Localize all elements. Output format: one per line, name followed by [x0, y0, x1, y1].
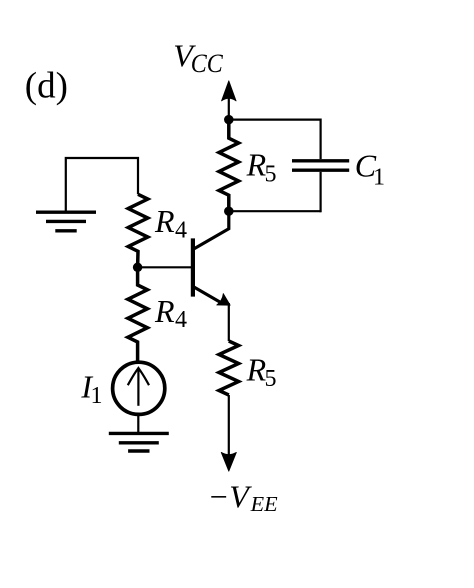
wire: top node to capacitor branch	[229, 118, 321, 120]
resistor R4 (upper) value label	[154, 203, 187, 244]
resistor R5 (top) value label	[246, 146, 277, 187]
resistor R4 (lower) value label	[154, 293, 187, 333]
svg-text:1: 1	[91, 383, 103, 409]
wire: capacitor branch to collector node	[229, 210, 321, 212]
node dot: collector / R5 / C1 junction	[224, 206, 234, 216]
node VCC label	[173, 38, 223, 78]
node -VEE label	[208, 479, 278, 516]
resistor R5 (bottom) value label	[246, 351, 277, 392]
transistor Q1 collector lead	[194, 211, 229, 249]
svg-text:4: 4	[175, 307, 187, 333]
transistor Q1 base bar	[191, 238, 195, 296]
resistor R5 (top, collector load)	[219, 120, 239, 212]
transistor Q1 emitter lead with arrow	[194, 287, 233, 311]
svg-text:CC: CC	[191, 49, 224, 78]
VCC supply arrow	[222, 81, 237, 120]
wire: current source to ground	[137, 414, 139, 433]
capacitor C1 value label	[355, 148, 385, 191]
node dot: VCC / R5 / C1 junction	[224, 115, 234, 125]
ground (top left)	[36, 212, 96, 231]
svg-text:5: 5	[265, 162, 277, 188]
wire: capacitor bottom lead	[320, 172, 322, 212]
svg-text:1: 1	[373, 165, 385, 191]
label (d)	[25, 66, 68, 107]
svg-text:R: R	[154, 293, 175, 329]
svg-text:R: R	[246, 351, 267, 387]
wire: top-left ground run	[66, 158, 138, 212]
svg-text:R: R	[246, 146, 267, 182]
wire: capacitor top lead	[320, 119, 322, 160]
current source I1 label	[80, 369, 102, 409]
wire: emitter to R5	[228, 303, 230, 341]
resistor R4 (upper)	[128, 194, 148, 267]
svg-text:R: R	[154, 203, 175, 239]
node dot: base / R4 / R4 junction	[133, 263, 143, 273]
svg-text:EE: EE	[250, 492, 278, 516]
wire: base wire from R4 node to transistor	[138, 266, 195, 268]
resistor R4 (lower)	[128, 267, 148, 362]
wire + arrow to -VEE	[221, 395, 236, 471]
svg-text:5: 5	[265, 366, 277, 392]
svg-text:(d): (d)	[25, 66, 68, 107]
resistor R5 (bottom, emitter)	[219, 341, 239, 395]
ground (bottom, under I1)	[109, 433, 169, 451]
current source I1	[113, 362, 165, 414]
svg-text:−V: −V	[208, 479, 253, 515]
capacitor C1	[292, 161, 349, 170]
svg-text:4: 4	[175, 218, 187, 244]
